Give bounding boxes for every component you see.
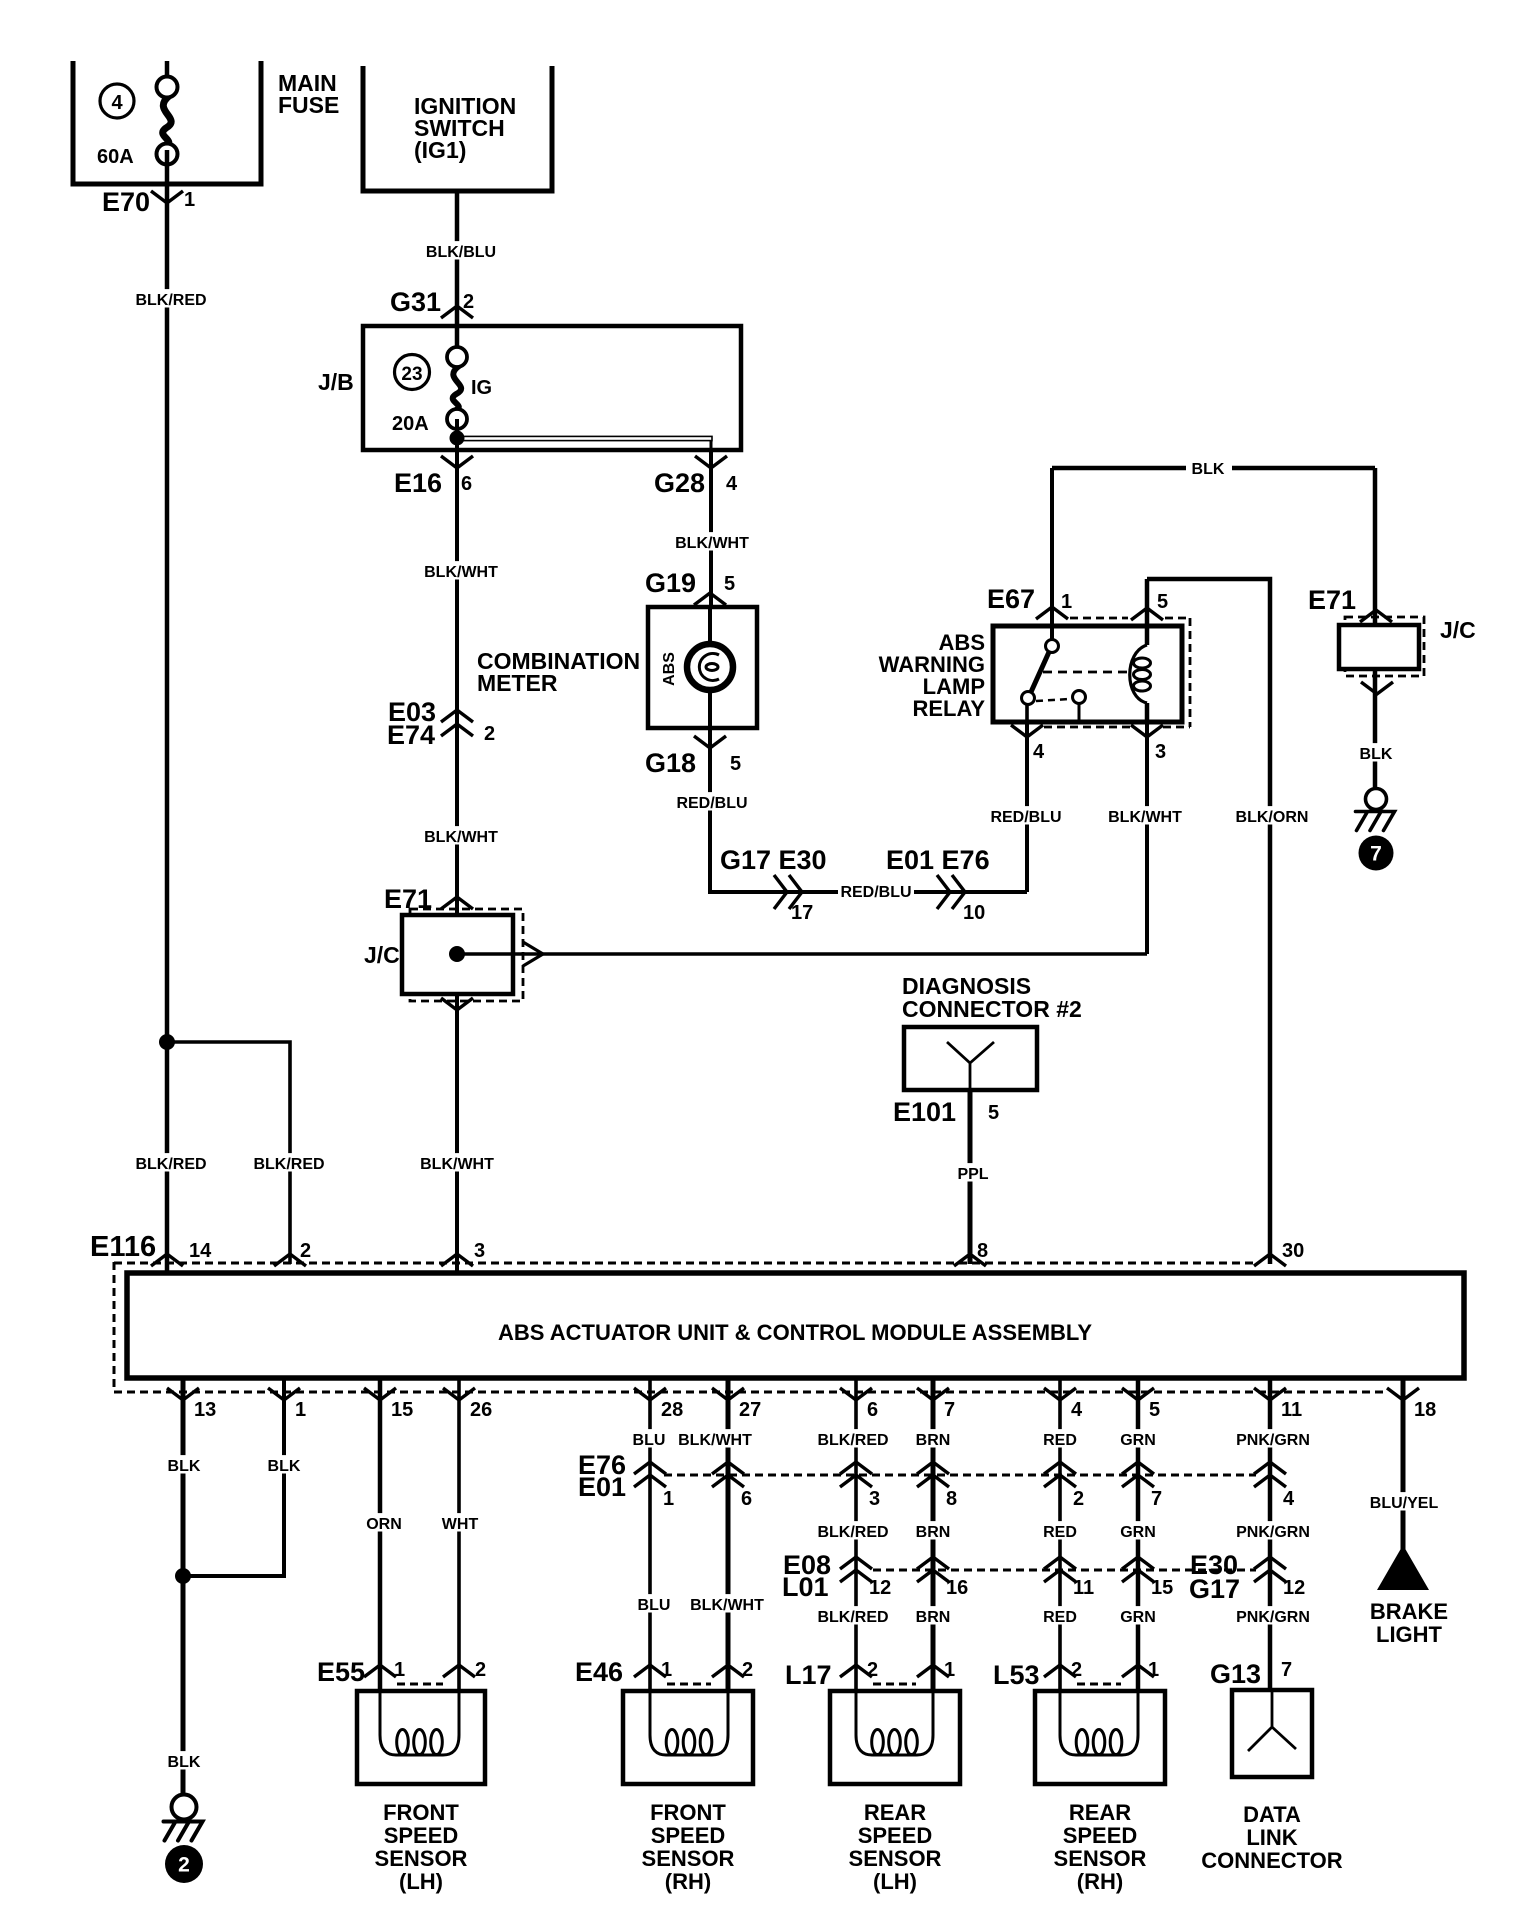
label BLK (to ground): [167, 1751, 201, 1771]
svg-text:1: 1: [1148, 1659, 1159, 1681]
connector G19 pin 5: [645, 568, 735, 605]
svg-text:BLU/YEL: BLU/YEL: [1370, 1495, 1439, 1512]
label BRN y1439: [916, 1429, 951, 1449]
connector G18 pin 5: [645, 736, 741, 778]
svg-text:J/B: J/B: [318, 369, 354, 395]
inline connector E03/E74 pin 2: [387, 697, 495, 750]
connector E116 pin 11 (bottom): [1254, 1388, 1302, 1421]
junction dot in J/B: [450, 431, 465, 446]
junction connector E71 (right J/C): [1308, 585, 1476, 694]
svg-text:18: 18: [1414, 1399, 1436, 1421]
inline connector E08/L01 pin 15: [1122, 1557, 1173, 1599]
svg-text:3: 3: [474, 1240, 485, 1262]
label IGNITION SWITCH (IG1): [414, 93, 516, 163]
connector E70 pin 1: [102, 187, 195, 217]
svg-text:SENSOR: SENSOR: [849, 1846, 942, 1871]
label BLK/ORN: [1235, 806, 1310, 826]
label BLU (lower): [637, 1594, 671, 1614]
label IG: [471, 377, 492, 399]
connector E67 pin 5: [1131, 591, 1168, 620]
svg-text:5: 5: [988, 1102, 999, 1124]
label RED y1531: [1043, 1521, 1077, 1541]
wire BLK pin 13: [181, 1378, 186, 1795]
svg-text:6: 6: [461, 473, 472, 495]
svg-text:BLK/RED: BLK/RED: [817, 1609, 888, 1626]
ground 2: [164, 1795, 204, 1884]
svg-text:BLK/WHT: BLK/WHT: [675, 535, 749, 552]
svg-text:BLK/WHT: BLK/WHT: [424, 564, 498, 581]
inline connector E08/L01 pin 16: [917, 1557, 968, 1599]
svg-text:2: 2: [463, 291, 474, 313]
inline connector E76/E01 pin 3: [840, 1462, 880, 1510]
svg-text:BLK/WHT: BLK/WHT: [424, 829, 498, 846]
svg-text:8: 8: [977, 1240, 988, 1262]
svg-text:G31: G31: [390, 287, 441, 317]
svg-text:8: 8: [946, 1488, 957, 1510]
data link connector box: [1232, 1690, 1312, 1777]
svg-text:20A: 20A: [392, 413, 429, 435]
label PNK/GRN y1616: [1236, 1606, 1311, 1626]
inline connector E76/E01 pin 2: [1044, 1462, 1084, 1510]
svg-text:2: 2: [867, 1659, 878, 1681]
svg-text:METER: METER: [477, 670, 558, 696]
svg-text:(RH): (RH): [665, 1869, 711, 1894]
svg-text:28: 28: [661, 1399, 683, 1421]
label BLK (pin1): [267, 1455, 301, 1475]
svg-text:ABS: ABS: [661, 652, 678, 686]
inline connector row E08/L01 dashed: [873, 1569, 1256, 1572]
label GRN y1616: [1120, 1606, 1156, 1626]
svg-text:BLK: BLK: [168, 1458, 201, 1475]
svg-text:27: 27: [739, 1399, 761, 1421]
svg-text:E101: E101: [893, 1097, 956, 1127]
svg-text:3: 3: [1155, 741, 1166, 763]
label RED y1439: [1043, 1429, 1077, 1449]
svg-text:5: 5: [724, 573, 735, 595]
svg-text:15: 15: [391, 1399, 413, 1421]
svg-text:BLK: BLK: [268, 1458, 301, 1475]
svg-text:BLK/RED: BLK/RED: [135, 1156, 206, 1173]
svg-text:RED/BLU: RED/BLU: [990, 809, 1061, 826]
svg-text:BLU: BLU: [638, 1597, 671, 1614]
connector G31 pin 2: [390, 287, 474, 318]
label BLK/WHT: [424, 826, 499, 846]
svg-text:6: 6: [741, 1488, 752, 1510]
svg-text:BLK/RED: BLK/RED: [817, 1524, 888, 1541]
junction connector E71 (J/C): [364, 884, 523, 1010]
svg-text:BLK/WHT: BLK/WHT: [678, 1432, 752, 1449]
svg-text:6: 6: [867, 1399, 878, 1421]
inline connector E76/E01 pin 8: [917, 1462, 957, 1510]
svg-text:BRN: BRN: [916, 1432, 951, 1449]
label 20A: [392, 413, 429, 435]
svg-text:BLK/RED: BLK/RED: [253, 1156, 324, 1173]
svg-text:E116: E116: [90, 1231, 156, 1263]
wire BLU pin 28: [648, 1378, 652, 1691]
label RED/BLU: [675, 792, 750, 812]
fuse F4 60A: [157, 61, 178, 165]
svg-text:REAR: REAR: [864, 1800, 926, 1825]
connector E116 pin 13 (bottom): [167, 1388, 216, 1421]
svg-text:2: 2: [300, 1240, 311, 1262]
connector E116 pin 6 (bottom): [840, 1388, 878, 1421]
svg-text:BLK/WHT: BLK/WHT: [1108, 809, 1182, 826]
svg-text:BRN: BRN: [916, 1609, 951, 1626]
ABS actuator unit box: [127, 1273, 1464, 1378]
connector E116 pin 1 (bottom): [268, 1388, 306, 1421]
svg-text:12: 12: [869, 1577, 891, 1599]
wire RED/BLU up to relay pin 4: [1025, 722, 1029, 892]
connector E101 pin 5: [893, 1097, 999, 1127]
svg-text:SENSOR: SENSOR: [375, 1846, 468, 1871]
wire ORN pin 15: [378, 1378, 383, 1691]
svg-text:ABS ACTUATOR UNIT & CONTROL MO: ABS ACTUATOR UNIT & CONTROL MODULE ASSEM…: [498, 1320, 1092, 1345]
label BLK/RED y1439: [816, 1429, 891, 1449]
svg-text:SPEED: SPEED: [384, 1823, 459, 1848]
wire BLK relay pin1 to E71: [1052, 468, 1375, 626]
wire GRN pin 5: [1136, 1378, 1141, 1691]
label PNK/GRN y1439: [1236, 1429, 1311, 1449]
svg-text:2: 2: [484, 723, 495, 745]
svg-text:2: 2: [475, 1659, 486, 1681]
svg-text:4: 4: [111, 92, 123, 114]
svg-text:G28: G28: [654, 468, 705, 498]
inline connector E76/E01 pin 7: [1122, 1462, 1162, 1510]
svg-text:BLK: BLK: [168, 1754, 201, 1771]
label BLK/RED (left): [134, 1153, 209, 1173]
svg-text:BLK/ORN: BLK/ORN: [1236, 809, 1309, 826]
svg-text:IG: IG: [471, 377, 492, 399]
svg-text:L53: L53: [993, 1660, 1040, 1690]
svg-text:BLK/BLU: BLK/BLU: [426, 244, 496, 261]
svg-text:7: 7: [1370, 843, 1382, 866]
svg-text:2: 2: [1071, 1659, 1082, 1681]
svg-text:E67: E67: [987, 584, 1035, 614]
label REAR SPEED SENSOR (LH): [849, 1800, 942, 1894]
label BRN y1531: [916, 1521, 951, 1541]
connector E116 pin 14 (top): [151, 1240, 212, 1266]
junction dot left column: [159, 1034, 175, 1050]
svg-text:5: 5: [1149, 1399, 1160, 1421]
svg-text:PNK/GRN: PNK/GRN: [1236, 1432, 1310, 1449]
svg-text:E55: E55: [317, 1657, 365, 1687]
inline connector row E76/E01 dashed: [664, 1474, 1256, 1477]
svg-text:J/C: J/C: [1440, 617, 1476, 643]
svg-text:BLK/RED: BLK/RED: [817, 1432, 888, 1449]
svg-text:(IG1): (IG1): [414, 137, 466, 163]
connector E116 pin 7 (bottom): [917, 1388, 955, 1421]
svg-text:1: 1: [1061, 591, 1072, 613]
wire BLK/RED pin 6: [854, 1378, 858, 1691]
connector E116 pin 30 (top): [1254, 1240, 1304, 1266]
svg-text:J/C: J/C: [364, 942, 400, 968]
fuse 23 IG 20A: [447, 347, 467, 429]
svg-text:BLK: BLK: [1360, 746, 1393, 763]
connector E116 dashed outline: [114, 1262, 1386, 1392]
svg-text:60A: 60A: [97, 146, 134, 168]
label BLK/BLU: [424, 241, 499, 261]
wire jumper to G28: [457, 436, 712, 450]
svg-text:BLU: BLU: [633, 1432, 666, 1449]
svg-text:13: 13: [194, 1399, 216, 1421]
svg-text:PNK/GRN: PNK/GRN: [1236, 1609, 1310, 1626]
svg-text:PPL: PPL: [957, 1166, 988, 1183]
inline connector E08/L01 pin 11: [1044, 1557, 1094, 1599]
rear speed sensor RH coil: [1060, 1684, 1138, 1755]
label E08 / L01: [782, 1550, 831, 1602]
inline connector G17 E30 pin 17: [720, 845, 827, 924]
connector L53 pins 2,1: [993, 1659, 1159, 1690]
relay linkage (dashed): [1036, 672, 1131, 701]
wire BRN pin 7: [931, 1378, 936, 1691]
wire branch to pin 2: [167, 1042, 290, 1264]
connector G28 pin 4: [654, 456, 738, 498]
svg-text:LINK: LINK: [1246, 1825, 1297, 1850]
label PNK/GRN y1531: [1236, 1521, 1311, 1541]
inline connector E76/E01 pin 6: [712, 1462, 752, 1510]
svg-text:L01: L01: [782, 1572, 829, 1602]
svg-text:E01 E76: E01 E76: [886, 845, 990, 875]
connector E116 pin 18 (bottom): [1387, 1388, 1436, 1421]
svg-text:E71: E71: [1308, 585, 1356, 615]
circled 4: [100, 84, 134, 118]
svg-text:DATA: DATA: [1243, 1802, 1301, 1827]
svg-text:BLK/WHT: BLK/WHT: [420, 1156, 494, 1173]
svg-text:G13: G13: [1210, 1659, 1261, 1689]
label BLK (pin13): [167, 1455, 201, 1475]
inline connector E08/L01 pin 12: [1254, 1557, 1305, 1599]
svg-text:5: 5: [1157, 591, 1168, 613]
svg-text:BLK/WHT: BLK/WHT: [690, 1597, 764, 1614]
relay coil: [1130, 579, 1151, 722]
svg-text:1: 1: [295, 1399, 306, 1421]
svg-text:REAR: REAR: [1069, 1800, 1131, 1825]
svg-text:16: 16: [946, 1577, 968, 1599]
svg-text:L17: L17: [785, 1660, 832, 1690]
label FRONT SPEED SENSOR (RH): [642, 1800, 735, 1894]
svg-text:SPEED: SPEED: [651, 1823, 726, 1848]
connector L17 pins 2,1: [785, 1659, 955, 1690]
svg-text:7: 7: [944, 1399, 955, 1421]
svg-text:2: 2: [742, 1659, 753, 1681]
svg-text:E74: E74: [387, 720, 435, 750]
wire BLK/RED left column: [165, 150, 170, 1271]
label REAR SPEED SENSOR (RH): [1054, 1800, 1147, 1894]
connector E116 pin 5 (bottom): [1122, 1388, 1160, 1421]
front speed sensor LH box: [357, 1691, 485, 1784]
svg-text:GRN: GRN: [1120, 1609, 1156, 1626]
svg-text:LIGHT: LIGHT: [1376, 1622, 1443, 1647]
connector E116 pin 15 (bottom): [364, 1388, 413, 1421]
label DIAGNOSIS CONNECTOR #2: [902, 973, 1082, 1022]
label ORN: [366, 1513, 402, 1533]
connector E116 pin 2 (top): [274, 1240, 311, 1266]
svg-text:2: 2: [1073, 1488, 1084, 1510]
circled 23: [395, 355, 430, 390]
svg-text:4: 4: [1071, 1399, 1083, 1421]
wire BLK/WHT column: [455, 419, 459, 1271]
svg-text:1: 1: [944, 1659, 955, 1681]
label 60A: [97, 146, 134, 168]
connector E55 pins 1,2: [317, 1657, 486, 1687]
svg-text:G19: G19: [645, 568, 696, 598]
label BLU/YEL: [1367, 1492, 1442, 1512]
wire BLK/WHT from G28: [709, 450, 713, 607]
svg-text:23: 23: [401, 364, 422, 385]
connector E116 pin 26 (bottom): [443, 1388, 492, 1421]
svg-text:G18: G18: [645, 748, 696, 778]
svg-text:1: 1: [394, 1659, 405, 1681]
inline connector E01 E76 pin 10: [886, 845, 990, 924]
wire BLK/WHT relay pin 3: [1145, 722, 1149, 954]
svg-text:SPEED: SPEED: [1063, 1823, 1138, 1848]
svg-text:11: 11: [1281, 1399, 1302, 1421]
label BLK/RED y1531: [816, 1521, 891, 1541]
label COMBINATION METER: [477, 648, 640, 696]
label BRAKE LIGHT: [1370, 1599, 1448, 1647]
svg-text:G17 E30: G17 E30: [720, 845, 827, 875]
inline connector E76/E01 pin 4: [1254, 1462, 1295, 1510]
brake light arrow: [1377, 1545, 1429, 1590]
label ABS (vertical): [661, 652, 678, 686]
svg-text:10: 10: [963, 902, 985, 924]
svg-text:2: 2: [178, 1854, 190, 1877]
label ABS ACTUATOR UNIT & CONTROL MODULE ASSEMBLY: [498, 1320, 1092, 1345]
svg-text:RED: RED: [1043, 1609, 1077, 1626]
svg-text:E70: E70: [102, 187, 150, 217]
rear speed sensor LH coil: [856, 1684, 933, 1755]
svg-text:26: 26: [470, 1399, 492, 1421]
svg-text:1: 1: [661, 1659, 672, 1681]
label BLK/WHT: [678, 1429, 753, 1449]
front speed sensor LH coil: [380, 1684, 459, 1755]
svg-text:11: 11: [1073, 1577, 1094, 1599]
connector E67 pin 4: [1011, 725, 1045, 763]
connector E46 pins 1,2: [575, 1657, 753, 1687]
connector E116 pin 28 (bottom): [634, 1388, 683, 1421]
label PPL: [956, 1163, 990, 1183]
connector E116 pin 27 (bottom): [712, 1388, 761, 1421]
label GRN y1439: [1120, 1429, 1156, 1449]
label GRN y1531: [1120, 1521, 1156, 1541]
svg-text:3: 3: [869, 1488, 880, 1510]
wire RED pin 4: [1058, 1378, 1062, 1691]
connector E67 pin 1: [987, 584, 1072, 619]
svg-text:BLK/RED: BLK/RED: [135, 292, 206, 309]
svg-text:CONNECTOR #2: CONNECTOR #2: [902, 996, 1082, 1022]
label RED/BLU (inline): [840, 884, 911, 901]
label BLK/WHT: [675, 532, 750, 552]
rear speed sensor LH box: [830, 1691, 960, 1784]
label BLK/WHT: [424, 561, 499, 581]
wire BLK/WHT pin 27: [726, 1378, 731, 1691]
ignition switch box: [361, 66, 555, 191]
label BLK/WHT (relay pin3): [1108, 806, 1183, 826]
svg-text:FRONT: FRONT: [383, 1800, 459, 1825]
wire WHT pin 26: [457, 1378, 461, 1691]
rear speed sensor RH box: [1035, 1691, 1165, 1784]
label BLK/WHT (lower): [690, 1594, 765, 1614]
relay box: [993, 626, 1182, 722]
svg-text:GRN: GRN: [1120, 1432, 1156, 1449]
svg-text:14: 14: [189, 1240, 212, 1262]
label FRONT SPEED SENSOR (LH): [375, 1800, 468, 1894]
svg-text:PNK/GRN: PNK/GRN: [1236, 1524, 1310, 1541]
main fuse box: [71, 61, 264, 184]
label BLK/WHT: [420, 1153, 495, 1173]
connector E116 pin 3 (top): [441, 1240, 485, 1266]
svg-text:BRN: BRN: [916, 1524, 951, 1541]
label WHT: [442, 1513, 479, 1533]
svg-text:(LH): (LH): [873, 1869, 917, 1894]
connector E116 pin 4 (bottom): [1044, 1388, 1083, 1421]
svg-text:BLK: BLK: [1192, 461, 1225, 478]
label RED/BLU (relay pin4): [989, 806, 1064, 826]
connector E67 dashed outline: [1044, 618, 1190, 727]
svg-text:ORN: ORN: [366, 1516, 402, 1533]
combination meter box: [648, 607, 757, 728]
label BLK: [1359, 743, 1393, 763]
label ABS WARNING LAMP RELAY: [879, 630, 986, 721]
svg-text:FUSE: FUSE: [278, 92, 339, 118]
svg-text:1: 1: [663, 1488, 674, 1510]
wire PPL: [968, 1090, 973, 1264]
diagnosis connector #2 box: [904, 1027, 1037, 1090]
label E116: [90, 1231, 156, 1263]
wire through meter: [708, 607, 712, 892]
svg-text:RED: RED: [1043, 1432, 1077, 1449]
label E30 / G17: [1189, 1550, 1240, 1604]
connector G13 pin 7: [1210, 1659, 1292, 1689]
inline connector E76/E01 pin 1: [634, 1462, 674, 1510]
label BRN y1616: [916, 1606, 951, 1626]
svg-text:GRN: GRN: [1120, 1524, 1156, 1541]
svg-text:RED/BLU: RED/BLU: [676, 795, 747, 812]
connector E116 pin 8 (top): [954, 1240, 988, 1266]
ABS warning lamp (bulb): [687, 644, 733, 690]
svg-text:(RH): (RH): [1077, 1869, 1123, 1894]
wire BLK pin 1: [183, 1378, 284, 1576]
ground 7: [1356, 789, 1395, 871]
svg-text:RED/BLU: RED/BLU: [840, 884, 911, 901]
svg-text:1: 1: [184, 189, 195, 211]
wire BLK/BLU: [455, 191, 460, 360]
wire BLU/YEL pin 18: [1401, 1378, 1406, 1550]
svg-text:SENSOR: SENSOR: [642, 1846, 735, 1871]
label J/B: [318, 369, 354, 395]
svg-text:7: 7: [1281, 1659, 1292, 1681]
svg-text:12: 12: [1283, 1577, 1305, 1599]
wire PNK/GRN pin 11: [1268, 1378, 1273, 1690]
svg-text:E16: E16: [394, 468, 442, 498]
label E76 / E01: [578, 1450, 626, 1502]
svg-text:SENSOR: SENSOR: [1054, 1846, 1147, 1871]
connector E67 pin 3: [1131, 725, 1166, 763]
label RED y1616: [1043, 1606, 1077, 1626]
svg-text:BRAKE: BRAKE: [1370, 1599, 1448, 1624]
svg-text:4: 4: [1033, 741, 1045, 763]
label DATA LINK CONNECTOR: [1201, 1802, 1342, 1873]
svg-text:RED: RED: [1043, 1524, 1077, 1541]
svg-text:WHT: WHT: [442, 1516, 479, 1533]
svg-text:(LH): (LH): [399, 1869, 443, 1894]
label BLK (top): [1192, 461, 1225, 478]
front speed sensor RH box: [623, 1691, 753, 1784]
svg-text:15: 15: [1151, 1577, 1173, 1599]
wire BLK/ORN from relay pin 5: [1147, 579, 1270, 1264]
label BLK/RED: [134, 289, 209, 309]
svg-text:G17: G17: [1189, 1574, 1240, 1604]
